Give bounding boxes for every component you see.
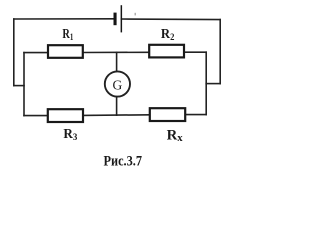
svg-text:Rx: Rx (167, 127, 184, 144)
wire R1 left lead (24, 52, 48, 54)
wire top-left horizontal (battery left lead) (14, 18, 114, 20)
wire left inner vertical (node between R1 and R3) (23, 53, 25, 116)
wire R1 to R2 segment through node C (83, 51, 149, 53)
svg-text:R3: R3 (63, 127, 77, 143)
svg-text:R2: R2 (161, 27, 175, 43)
svg-text:G: G (113, 77, 123, 92)
battery polarity speck (135, 13, 136, 16)
resistor R2 body (149, 45, 184, 58)
wire R3 left lead (24, 115, 48, 117)
wire galvanometer top branch (116, 52, 118, 71)
wire R2 right lead (184, 51, 206, 53)
wire RX right lead (185, 114, 206, 116)
resistor R3 body (48, 109, 83, 122)
wire left outer vertical (13, 19, 15, 86)
resistor R1 body (48, 45, 83, 58)
battery B1 positive plate (long thin bar) (121, 5, 123, 32)
wire right outer vertical (219, 20, 221, 84)
svg-text:R1: R1 (62, 27, 73, 43)
wire galvanometer bottom branch (116, 97, 118, 115)
wire right mid connector (206, 83, 220, 85)
wire top-right horizontal (battery right lead) (122, 18, 221, 21)
wire right inner vertical (node between R2 and RX) (205, 52, 207, 114)
wire R3 to RX segment through node D (83, 114, 150, 117)
battery B1 negative plate (short thick bar) (114, 13, 117, 26)
wire left mid connector (14, 85, 24, 87)
resistor RX body (150, 108, 185, 121)
svg-text:Рис.3.7: Рис.3.7 (104, 153, 143, 169)
galvanometer G circle (105, 71, 130, 96)
